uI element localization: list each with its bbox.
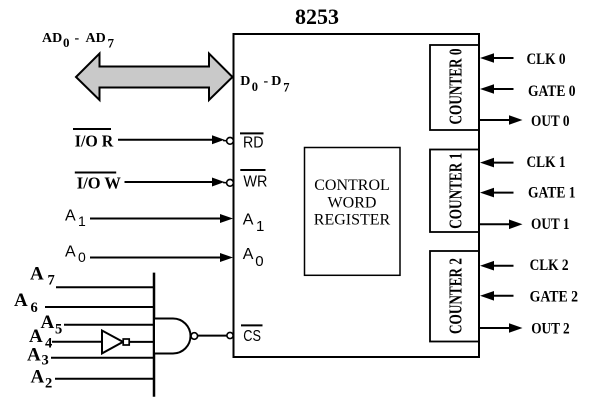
wire GATE 2 — [480, 291, 494, 301]
svg-text:1: 1 — [256, 218, 264, 235]
svg-text:WORD: WORD — [328, 195, 377, 212]
svg-text:-: - — [264, 74, 269, 89]
svg-text:5: 5 — [55, 322, 62, 338]
wire GATE 0 — [480, 84, 494, 94]
counter 0 box — [430, 45, 479, 130]
svg-text:4: 4 — [45, 336, 52, 352]
svg-text:7: 7 — [48, 273, 55, 289]
label AD0 - AD7 — [42, 31, 115, 51]
svg-text:I/O W: I/O W — [77, 174, 121, 193]
svg-text:A: A — [14, 290, 28, 311]
wire A6 — [45, 306, 155, 308]
label I/O W (active low) — [75, 172, 116, 174]
wire A2 — [55, 378, 155, 380]
wire OUT 0 — [480, 119, 510, 121]
svg-text:D: D — [240, 74, 250, 89]
wire A0 — [90, 257, 221, 259]
svg-text:A: A — [243, 246, 254, 263]
svg-text:A: A — [31, 366, 45, 387]
svg-text:A: A — [65, 243, 76, 260]
svg-text:A: A — [65, 207, 76, 224]
svg-text:WR: WR — [243, 173, 267, 190]
wire OUT 2 — [480, 327, 510, 329]
svg-text:A: A — [27, 345, 41, 366]
svg-text:RD: RD — [243, 135, 264, 152]
wire CLK 1 — [480, 158, 494, 168]
svg-text:0: 0 — [63, 35, 70, 50]
wire OUT 1 — [480, 223, 510, 225]
counter 1 box — [430, 150, 479, 233]
svg-text:GATE 2: GATE 2 — [530, 288, 579, 305]
counter 2 box — [430, 251, 479, 342]
svg-text:CLK 0: CLK 0 — [527, 51, 566, 68]
wire A7 — [56, 286, 155, 288]
svg-text:AD: AD — [86, 31, 106, 46]
wire NAND output to CS — [198, 335, 227, 337]
wire A5 — [64, 324, 155, 326]
pin RD (active low) — [240, 132, 264, 134]
wire A4 to inverter — [52, 341, 102, 343]
svg-text:CLK 2: CLK 2 — [530, 257, 569, 274]
control word register box — [305, 148, 401, 276]
wire I/O R to RD — [118, 139, 214, 141]
svg-text:7: 7 — [283, 81, 289, 95]
svg-text:GATE 0: GATE 0 — [528, 83, 576, 100]
wire A3 — [51, 357, 155, 359]
svg-text:CLK 1: CLK 1 — [527, 154, 566, 171]
NAND gate — [155, 319, 191, 354]
pin label D0 - D7 — [240, 74, 289, 95]
svg-text:REGISTER: REGISTER — [314, 212, 391, 229]
wire CLK 0 — [480, 53, 494, 63]
svg-text:0: 0 — [255, 253, 263, 270]
svg-text:A: A — [30, 263, 44, 284]
pin WR (active low) — [240, 169, 265, 171]
svg-text:A: A — [243, 212, 254, 229]
wire inverter output to address bus — [129, 341, 155, 343]
svg-text:GATE 1: GATE 1 — [528, 185, 576, 202]
data bus double arrow AD0-AD7 to D0-D7 — [76, 54, 233, 101]
svg-text:0: 0 — [78, 249, 86, 265]
svg-text:COUNTER 2: COUNTER 2 — [446, 258, 466, 334]
wire GATE 1 — [480, 188, 494, 198]
inverter (NOT gate) on A4 — [102, 331, 123, 354]
svg-text:CONTROL: CONTROL — [314, 177, 390, 194]
svg-text:1: 1 — [78, 213, 86, 229]
svg-text:2: 2 — [45, 376, 52, 392]
svg-text:0: 0 — [252, 80, 258, 94]
pin CS (active low) — [241, 324, 263, 326]
svg-text:6: 6 — [31, 300, 38, 316]
svg-text:8253: 8253 — [295, 4, 339, 29]
svg-text:OUT 1: OUT 1 — [531, 216, 570, 233]
svg-text:COUNTER 0: COUNTER 0 — [446, 48, 466, 124]
svg-text:7: 7 — [108, 36, 115, 51]
svg-text:-: - — [75, 31, 80, 46]
wire I/O W to WR — [125, 181, 215, 183]
svg-text:D: D — [271, 74, 281, 89]
svg-text:I/O R: I/O R — [75, 132, 114, 151]
address bus vertical line — [153, 273, 156, 397]
svg-text:CS: CS — [243, 328, 261, 345]
svg-text:COUNTER 1: COUNTER 1 — [446, 153, 466, 229]
svg-text:OUT 2: OUT 2 — [531, 321, 570, 338]
wire A1 — [90, 218, 221, 220]
wire CLK 2 — [480, 261, 494, 271]
chip U1 8253 outline — [234, 34, 480, 357]
label I/O R (active low) — [73, 128, 111, 130]
svg-text:AD: AD — [42, 31, 62, 46]
svg-text:OUT 0: OUT 0 — [531, 113, 570, 130]
